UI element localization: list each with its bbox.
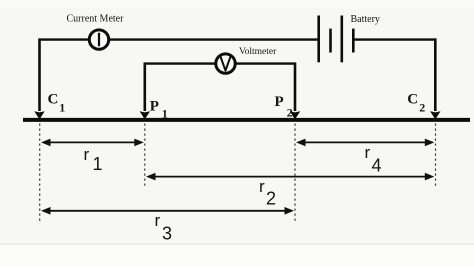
svg-text:r: r (155, 211, 161, 230)
svg-text:2: 2 (287, 106, 293, 120)
voltmeter U2 (216, 54, 235, 73)
svg-text:r: r (84, 145, 90, 164)
electrode arrow P1 (140, 111, 150, 119)
svg-text:1: 1 (59, 101, 65, 115)
svg-text:C: C (407, 91, 418, 107)
battery plate long 2 (340, 16, 343, 63)
dashed guide line under P1 (144, 124, 146, 188)
dashed guide line under P2 (294, 124, 296, 222)
svg-text:4: 4 (372, 156, 382, 176)
svg-text:r: r (365, 143, 371, 162)
wire: P1 vertical drop (144, 62, 147, 111)
svg-text:2: 2 (266, 189, 276, 209)
electrode arrow C2 (430, 111, 440, 119)
dimension arrow r4 (P2 to C2) (296, 139, 434, 147)
dashed guide line under C2 (435, 124, 437, 188)
wire: P2 vertical drop (294, 62, 297, 111)
svg-text:P: P (275, 94, 284, 110)
electrode arrow P2 (290, 111, 300, 119)
svg-text:P: P (150, 99, 159, 115)
electrode arrow C1 (34, 111, 44, 119)
svg-text:Current Meter: Current Meter (67, 14, 125, 25)
svg-text:C: C (48, 92, 59, 108)
battery B1 (319, 16, 354, 63)
dashed guide line under C1 (39, 124, 41, 222)
wire: C1 vertical drop (38, 38, 41, 111)
battery plate short 1 (329, 29, 332, 53)
dimension arrow r1 (C1 to P1) (41, 139, 144, 147)
dimension arrow r3 (C1 to P2) (41, 207, 294, 215)
svg-text:2: 2 (419, 100, 425, 114)
battery plate short 2 (352, 29, 355, 53)
svg-text:1: 1 (162, 107, 168, 121)
svg-text:r: r (259, 177, 265, 196)
svg-text:1: 1 (93, 154, 103, 174)
dimension arrow r2 (P1 to C2) (146, 173, 434, 181)
ground surface line (23, 118, 470, 122)
svg-text:3: 3 (162, 224, 172, 244)
wire: C1 top corner to battery left (current circuit top wire) (40, 38, 319, 40)
wire: battery right to C2 corner (353, 38, 435, 40)
svg-text:Voltmeter: Voltmeter (239, 47, 277, 57)
wire: voltmeter loop P1 to P2 (145, 62, 295, 64)
battery plate long 1 (317, 16, 320, 63)
svg-text:Battery: Battery (351, 14, 380, 25)
ammeter U1 (Current Meter) (89, 30, 108, 49)
wire: C2 vertical drop (434, 38, 437, 111)
